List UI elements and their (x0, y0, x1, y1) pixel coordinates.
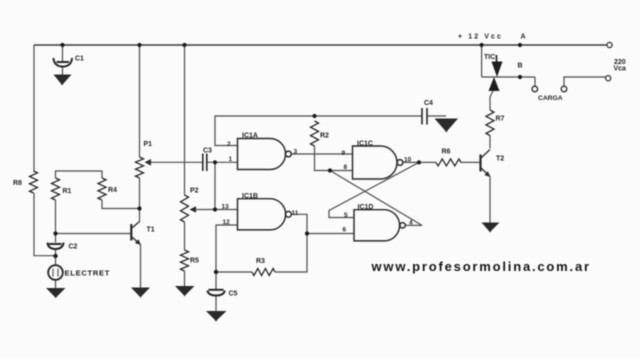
wire C5 bottom to ground (215, 296, 217, 312)
wire R4 bottom to T1 collector node (102, 200, 140, 209)
wire R2 bottom to IC1C pin 8 (315, 146, 353, 171)
terminal circle 220Vca bottom (606, 76, 611, 81)
node P1 tap (137, 43, 141, 47)
svg-text:T2: T2 (496, 156, 504, 163)
wire R5 to ground (184, 271, 186, 286)
svg-text:6: 6 (343, 227, 347, 234)
svg-text:C2: C2 (69, 244, 78, 251)
transistor T1 (131, 222, 141, 246)
capacitor C4 (422, 108, 427, 125)
svg-text:1: 1 (229, 156, 233, 163)
wire triac MT to B node and CARGA (482, 76, 535, 78)
resistor R4 (98, 178, 106, 200)
capacitor C5 (208, 290, 225, 296)
svg-text:9: 9 (342, 150, 346, 157)
ground below C5 (206, 311, 227, 322)
node P2 tap (182, 43, 186, 47)
terminal circle CARGA left (532, 86, 538, 92)
svg-text:C1: C1 (75, 56, 84, 63)
wire C3 to IC1A pin 1 (208, 161, 238, 163)
svg-text:8: 8 (344, 164, 348, 171)
node R3 C5 pin12 (214, 270, 218, 274)
wire +12V top rail (34, 44, 607, 46)
wire P1 lower lead to T1 collector (139, 178, 141, 222)
wire electret to ground (55, 280, 57, 288)
NAND gate IC1C (353, 146, 398, 179)
node C1 tap (60, 43, 64, 47)
resistor R6 (436, 159, 461, 166)
svg-text:IC1A: IC1A (242, 133, 258, 140)
svg-text:IC1C: IC1C (357, 141, 373, 148)
wire IC1A out to IC1C pin 9 (291, 153, 352, 155)
terminal circle 220Vca top (607, 42, 612, 47)
wire P2 wiper to IC1B pin 13 (196, 209, 238, 211)
wire IC1B pin 12 down to R3/C5 node (216, 225, 238, 272)
wire cross-couple IC1D out to IC1C pin 8 (330, 171, 422, 226)
resistor R5 (181, 250, 189, 271)
svg-text:R5: R5 (190, 258, 199, 265)
wiper arrow P1 (145, 159, 152, 166)
svg-text:3: 3 (294, 149, 298, 156)
wire CARGA left terminal drop (534, 77, 536, 86)
svg-text:11: 11 (292, 210, 299, 217)
svg-text:IC1B: IC1B (242, 193, 258, 200)
NAND gate IC1B (238, 199, 286, 230)
wire R6 to T2 base (461, 161, 480, 163)
wire IC1D pin 4 output stub (405, 224, 422, 226)
svg-text:R6: R6 (442, 149, 451, 156)
node C2 electret R8 (53, 254, 57, 258)
wire R1 R4 top bias rail (56, 171, 103, 178)
wire top node R2/C4 horizontal (215, 116, 422, 146)
transistor T2 (481, 150, 491, 178)
svg-text:TIC: TIC (484, 54, 495, 61)
wire P2 lower lead to R5 (184, 222, 186, 250)
wire C4 right lead (428, 115, 447, 117)
wire C3 node down to pin13 node (214, 162, 216, 209)
svg-text:R4: R4 (108, 187, 117, 194)
wiper arrow P2 (190, 206, 197, 213)
resistor R3 (252, 269, 275, 276)
svg-text:12: 12 (223, 219, 231, 226)
svg-text:R7: R7 (496, 116, 505, 123)
wire R8 bottom to electret node (34, 193, 56, 256)
svg-text:ELECTRET: ELECTRET (65, 269, 111, 278)
node pin8 latch (328, 168, 332, 172)
wire C5 top lead (215, 272, 217, 289)
resistor R1 (52, 178, 60, 200)
NAND gate IC1A (238, 139, 286, 170)
potentiometer P2 (181, 195, 189, 222)
wire C1 to ground (62, 67, 64, 75)
ground below R5 (175, 286, 195, 297)
svg-text:R8: R8 (13, 180, 22, 187)
node T1 base (53, 231, 57, 235)
wire C1 lead from rail (62, 45, 64, 61)
node pin13 (213, 207, 217, 211)
svg-text:P2: P2 (190, 188, 199, 195)
node IC1C out latch (417, 160, 421, 164)
svg-text:R2: R2 (320, 133, 329, 140)
wire T1 base wire (56, 233, 132, 235)
wire P1 upper lead (139, 45, 141, 157)
node C3 pin1 (213, 160, 217, 164)
wire IC1B out to IC1D pin 6 (307, 233, 354, 235)
ground below T2 (482, 223, 500, 233)
node pin6 latch (305, 231, 309, 235)
wire T2 emitter to ground (489, 177, 491, 223)
ground below C1 (54, 75, 72, 86)
ground below T1 (131, 288, 150, 298)
svg-text:10: 10 (404, 157, 412, 164)
svg-text:R3: R3 (256, 258, 265, 265)
ground below electret (46, 288, 66, 298)
wire R3 right lead and riser to pin6 node (275, 234, 307, 273)
svg-text:13: 13 (222, 204, 230, 211)
svg-text:T1: T1 (147, 227, 155, 234)
capacitor C3 (203, 154, 207, 172)
node A (518, 43, 522, 47)
svg-text:B: B (518, 63, 523, 70)
svg-text:5: 5 (344, 212, 348, 219)
svg-text:C4: C4 (424, 100, 433, 107)
wire triac branch from rail (481, 45, 483, 77)
resistor R7 (486, 110, 494, 136)
svg-text:A: A (521, 34, 526, 41)
potentiometer P1 (136, 157, 144, 178)
wire left drop to R8 (33, 45, 35, 171)
svg-text:+ 12 Vcc: + 12 Vcc (458, 34, 503, 41)
svg-text:2: 2 (227, 141, 231, 148)
wire P1 wiper to C3 (146, 161, 202, 163)
wire R1 bottom to base node (55, 200, 57, 234)
wire IC1C output to R6 (403, 161, 436, 163)
node R2 top (312, 114, 316, 118)
svg-text:P1: P1 (144, 141, 153, 148)
wire cross-couple IC1C out to IC1D pin 5 (329, 162, 419, 217)
wire IC1B out down to pin6 level (291, 214, 307, 233)
wire T1 emitter to ground (140, 245, 142, 288)
electret microphone (48, 265, 63, 280)
node R4 P1 collector (137, 206, 141, 210)
node triac tap (480, 43, 484, 47)
wire P2 upper lead (184, 45, 186, 195)
svg-text:CARGA: CARGA (538, 95, 563, 102)
wire T2 collector to R7 (489, 136, 491, 149)
svg-text:IC1D: IC1D (358, 204, 374, 211)
capacitor C1 (54, 58, 73, 67)
triac TIC (489, 55, 503, 91)
wire CARGA right terminal up and to 220Vca (564, 77, 606, 86)
svg-text:C3: C3 (203, 148, 212, 155)
resistor R8 (30, 171, 38, 193)
svg-text:Vca: Vca (614, 66, 627, 73)
svg-text:4: 4 (409, 220, 413, 227)
wire C2 top lead (55, 234, 57, 243)
svg-text:www.profesormolina.com.ar: www.profesormolina.com.ar (371, 259, 591, 274)
wire R7 to triac gate (490, 91, 493, 110)
svg-text:R1: R1 (63, 188, 72, 195)
node B (518, 75, 522, 79)
ground at C4 (435, 119, 459, 133)
wire C2 bottom to electret (55, 250, 57, 266)
wire R3 left lead (216, 271, 252, 273)
svg-text:C5: C5 (229, 291, 238, 298)
capacitor C2 (48, 243, 64, 250)
resistor R2 (311, 121, 319, 146)
NAND gate IC1D (354, 210, 400, 241)
terminal circle CARGA right (561, 86, 567, 92)
